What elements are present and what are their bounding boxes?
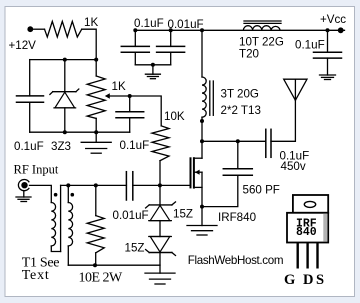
svg-text:IRF840: IRF840	[218, 211, 256, 224]
svg-text:3Z3: 3Z3	[51, 140, 71, 153]
svg-text:0.1uF: 0.1uF	[14, 140, 44, 153]
svg-text:T20: T20	[239, 48, 259, 61]
svg-text:450v: 450v	[281, 160, 306, 173]
svg-text:1K: 1K	[112, 80, 126, 93]
svg-text:G: G	[284, 272, 295, 288]
svg-text:Text: Text	[22, 268, 50, 283]
svg-text:S: S	[316, 272, 324, 288]
svg-text:RF Input: RF Input	[14, 163, 59, 177]
svg-text:D: D	[303, 272, 313, 288]
svg-text:+Vcc: +Vcc	[320, 13, 346, 26]
svg-text:15Z: 15Z	[125, 242, 145, 255]
svg-text:1K: 1K	[84, 16, 98, 29]
svg-text:10K: 10K	[164, 110, 185, 123]
svg-text:0.01uF: 0.01uF	[113, 209, 149, 222]
svg-text:FlashWebHost.com: FlashWebHost.com	[188, 254, 283, 267]
svg-text:0.1uF: 0.1uF	[295, 39, 325, 52]
svg-text:10E 2W: 10E 2W	[79, 270, 124, 285]
svg-text:0.1uF: 0.1uF	[134, 17, 164, 30]
svg-text:560 PF: 560 PF	[243, 184, 280, 197]
svg-text:3T 20G: 3T 20G	[221, 88, 259, 101]
svg-text:15Z: 15Z	[173, 208, 193, 221]
svg-text:0.1uF: 0.1uF	[120, 139, 150, 152]
svg-text:2*2 T13: 2*2 T13	[221, 104, 261, 117]
svg-text:+12V: +12V	[9, 39, 37, 52]
svg-text:840: 840	[296, 226, 317, 239]
svg-text:0.01uF: 0.01uF	[168, 18, 204, 31]
